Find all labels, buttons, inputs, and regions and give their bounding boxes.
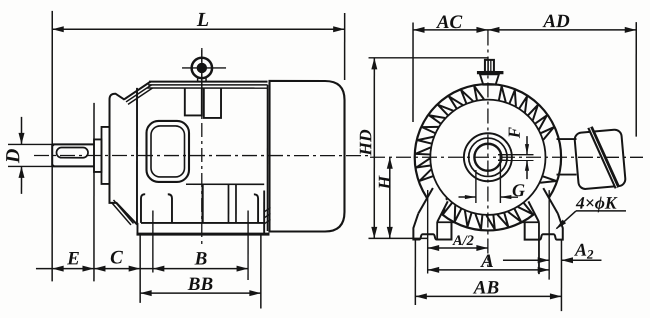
foot rib middle bbox=[201, 183, 203, 223]
dimension C arrows and label bbox=[94, 266, 106, 272]
keyway flat chord bbox=[499, 152, 501, 163]
terminal box side rectangles bbox=[185, 88, 202, 116]
extension line at shaft shoulder bbox=[93, 103, 95, 282]
svg-text:L: L bbox=[196, 9, 209, 31]
dimension F arrows and label bbox=[526, 136, 528, 155]
svg-text:F: F bbox=[505, 126, 524, 139]
frame top ridge lines (triple) bbox=[149, 81, 267, 83]
shaft shoulder step bbox=[94, 139, 102, 172]
svg-text:G: G bbox=[512, 180, 525, 200]
hub outer circle bbox=[464, 133, 512, 181]
dimension AC AD line bbox=[413, 29, 636, 31]
foot hole center line front bbox=[152, 210, 154, 272]
svg-text:C: C bbox=[110, 247, 123, 268]
dimension B arrows and label bbox=[153, 266, 165, 272]
foot plate (left view) bbox=[141, 222, 264, 224]
right foot hole center line bbox=[548, 190, 550, 279]
dimension D extension lines bbox=[8, 143, 52, 145]
dimension L extension line left (shaft end) bbox=[51, 11, 53, 281]
svg-text:AD: AD bbox=[542, 11, 570, 32]
terminal box neck (right view) bbox=[557, 138, 577, 140]
dimension A line and label bbox=[428, 269, 550, 271]
eyebolt (left view) bbox=[192, 58, 212, 78]
dimension G extension lines bbox=[475, 170, 477, 203]
frame/cowl joint line bbox=[266, 85, 268, 231]
dimension F extension lines bbox=[498, 154, 534, 156]
eyebolt vertical center line (left view) bbox=[201, 48, 203, 244]
dimension chain E C B line bbox=[36, 268, 248, 270]
shaft circle bbox=[474, 144, 501, 171]
stator fin ring outer circle bbox=[415, 84, 561, 230]
extension line BB right bbox=[260, 234, 262, 308]
foot bottom extension line (right view) bbox=[368, 237, 428, 239]
extension line AB right bbox=[560, 240, 562, 312]
fan cowl bbox=[269, 81, 344, 232]
dimension H line and label bbox=[389, 157, 391, 238]
right leg bbox=[528, 188, 558, 222]
foot rear hatch ticks bbox=[264, 207, 270, 212]
left foot hole center line bbox=[427, 190, 429, 273]
left view horizontal center line bbox=[34, 154, 370, 156]
dimension A2 lines arrows label bbox=[503, 259, 549, 261]
svg-text:E: E bbox=[66, 248, 80, 269]
bearing cap bbox=[101, 127, 109, 184]
dimension AC AD extension line left bbox=[412, 23, 414, 123]
svg-text:A: A bbox=[480, 251, 494, 272]
right view horizontal center line bbox=[370, 156, 643, 158]
dimension BB line arrows label bbox=[140, 292, 261, 294]
foot rib pair rear bbox=[227, 185, 229, 223]
dimension L extension line right (cowl) bbox=[344, 13, 346, 80]
right foot block bbox=[525, 214, 563, 240]
svg-text:A/2: A/2 bbox=[452, 233, 474, 249]
hub middle circle bbox=[469, 138, 507, 176]
foot rib front with top curl bbox=[141, 194, 145, 223]
dimension E arrows and label bbox=[52, 266, 64, 272]
terminal box cover plate diagonal bar bbox=[587, 126, 620, 189]
right foot top surface line bbox=[522, 221, 539, 223]
dimension G arrows and label bbox=[458, 196, 475, 198]
svg-text:HD: HD bbox=[355, 129, 375, 157]
svg-text:D: D bbox=[2, 149, 24, 164]
svg-text:4×ϕK: 4×ϕK bbox=[575, 193, 618, 213]
end shield bottom chamfer lines bbox=[113, 200, 133, 224]
terminal box (right view) bbox=[574, 129, 626, 189]
svg-text:B: B bbox=[194, 248, 208, 269]
cooling fins bbox=[416, 86, 557, 229]
foot rear edge bbox=[263, 190, 265, 234]
dimension HD line and label bbox=[373, 58, 375, 238]
frame top-left chamfer (triple) bbox=[124, 82, 151, 100]
right view vertical center line bbox=[487, 31, 489, 267]
left foot top surface line bbox=[437, 221, 454, 223]
foot rear rib with top curl bbox=[254, 194, 258, 223]
svg-text:H: H bbox=[374, 174, 394, 190]
shaft bbox=[52, 144, 94, 166]
left leg bbox=[418, 188, 448, 222]
stator fin ring inner circle bbox=[430, 100, 545, 215]
svg-text:AC: AC bbox=[436, 12, 463, 33]
dimension L line and label bbox=[52, 28, 344, 30]
dimension A/2 line and label bbox=[428, 247, 488, 249]
dimension AC AD extension line right bbox=[635, 22, 637, 136]
left foot block bbox=[413, 214, 451, 240]
extension line BB left bbox=[139, 234, 141, 303]
frame underside lines bbox=[186, 183, 264, 185]
frame window rounded square bbox=[146, 121, 189, 182]
dimension D arrows and label bbox=[21, 117, 23, 145]
foot hole center line rear bbox=[247, 210, 249, 279]
dimension HD extension line top bbox=[369, 57, 489, 59]
extension line AB left bbox=[414, 240, 416, 306]
svg-text:AB: AB bbox=[473, 278, 499, 299]
dimension AB line and label bbox=[415, 295, 561, 297]
eyebolt top (right view) bbox=[485, 60, 494, 72]
shaft keyway bbox=[57, 148, 89, 158]
foot rib 2 with top curl bbox=[168, 194, 172, 223]
svg-text:BB: BB bbox=[187, 274, 213, 295]
end shield (front bell) bbox=[109, 94, 137, 225]
